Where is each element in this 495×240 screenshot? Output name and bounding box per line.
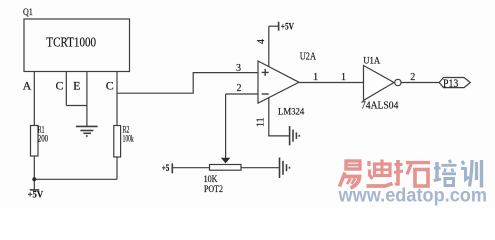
svg-text:2: 2	[410, 72, 415, 83]
power +5V bottom bar	[30, 189, 39, 191]
svg-text:A: A	[23, 79, 32, 93]
ground under E	[76, 126, 98, 136]
svg-text:POT2: POT2	[204, 185, 223, 195]
svg-text:www.edatop.com: www.edatop.com	[338, 185, 487, 207]
svg-text:200: 200	[38, 134, 49, 144]
power +5 pot bar	[171, 163, 173, 173]
inverter U1A triangle	[364, 66, 395, 101]
op-amp output wire	[299, 82, 364, 84]
pin 11 wire	[269, 98, 289, 136]
svg-text:LM324: LM324	[278, 108, 305, 118]
power +5V opamp bar	[278, 22, 280, 31]
ground at pin 11	[290, 126, 300, 145]
svg-text:+5: +5	[162, 163, 170, 173]
resistor R2	[114, 126, 121, 158]
wire R2 bottom	[116, 157, 118, 179]
svg-text:C: C	[106, 79, 114, 93]
wire C-E connector	[66, 105, 87, 107]
op-amp minus sign	[262, 93, 269, 95]
svg-text:4: 4	[256, 39, 267, 44]
svg-text:3: 3	[236, 63, 241, 74]
pot left wire	[172, 167, 209, 169]
svg-text:10K: 10K	[204, 175, 218, 185]
wire R1 bottom	[33, 156, 35, 179]
svg-text:E: E	[73, 79, 80, 93]
junction dot node	[32, 177, 36, 181]
pin 4 wire	[268, 26, 270, 66]
svg-text:1: 1	[341, 72, 346, 83]
svg-text:U2A: U2A	[300, 52, 317, 63]
sensor box Q1 TCRT1000	[24, 19, 130, 72]
wire C2 to opamp noninverting	[117, 73, 258, 94]
pin C wire	[65, 72, 67, 106]
pin C2 wire	[116, 72, 118, 126]
pot right wire	[241, 167, 279, 169]
glyph xun 训	[461, 160, 482, 188]
glyph pei 培	[434, 160, 457, 186]
svg-text:P13: P13	[443, 76, 458, 90]
inverter output wire	[401, 82, 439, 84]
glyph yi 易	[340, 161, 362, 188]
op-amp U2A triangle	[258, 61, 299, 103]
svg-text:2: 2	[237, 83, 242, 94]
power +5V opamp arm	[269, 25, 279, 27]
pin E wire	[86, 72, 88, 126]
port P13 shape	[439, 78, 470, 88]
svg-text:1: 1	[313, 72, 318, 83]
svg-text:74ALS04: 74ALS04	[361, 100, 398, 111]
svg-text:C: C	[55, 79, 63, 93]
inverter bubble	[395, 79, 401, 85]
glyph di 迪	[367, 160, 393, 187]
resistor R1	[31, 126, 39, 157]
potentiometer POT2 body	[210, 165, 242, 171]
svg-text:TCRT1000: TCRT1000	[46, 35, 96, 50]
op-amp plus sign	[262, 69, 269, 76]
pot wiper arrow	[221, 158, 230, 164]
svg-text:11: 11	[255, 117, 266, 127]
wire pot to opamp inverting	[226, 93, 258, 95]
wire pot wiper vertical	[225, 94, 227, 159]
svg-text:U1A: U1A	[363, 57, 380, 67]
svg-text:100k: 100k	[123, 134, 134, 144]
ground at pot	[280, 158, 290, 179]
svg-text:+5V: +5V	[281, 21, 295, 31]
svg-text:Q1: Q1	[23, 8, 33, 18]
glyph tuo 拓	[394, 160, 430, 186]
pin A wire	[33, 72, 35, 126]
svg-text:+5V: +5V	[28, 190, 44, 200]
watermark logo 易迪拓培训	[340, 160, 431, 189]
wire bottom rail	[34, 178, 117, 180]
power +5V bottom stem	[33, 179, 35, 190]
